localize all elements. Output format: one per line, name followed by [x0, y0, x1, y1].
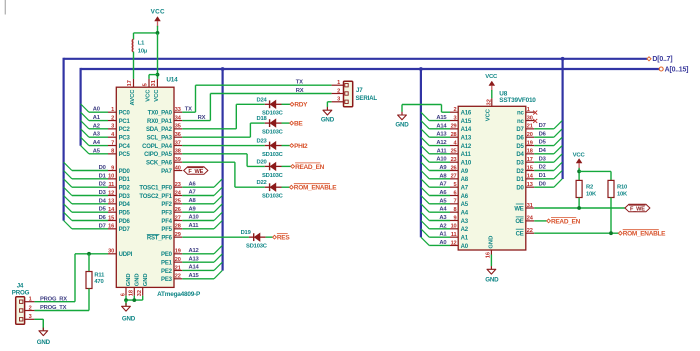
svg-text:A9: A9 — [189, 206, 197, 212]
net label A5 U8 — [439, 198, 447, 204]
svg-text:A1: A1 — [93, 115, 101, 121]
net label A1 — [93, 115, 101, 121]
svg-text:A11: A11 — [461, 152, 472, 158]
net label A13 — [189, 256, 200, 262]
pin 1 J7 — [332, 84, 344, 86]
net label A14 — [189, 265, 200, 271]
net label A14 U8 — [436, 123, 447, 129]
hier label F_WE at U8 — [625, 204, 650, 212]
wire VCC U8 — [491, 90, 493, 98]
pin 11 A1 U8 — [450, 232, 469, 242]
bus entry A14 U8 — [421, 121, 429, 129]
connector J7 body — [344, 81, 353, 107]
bus entry A7 — [214, 187, 222, 195]
wire net A12 U8 — [429, 145, 450, 147]
svg-text:VCC: VCC — [485, 108, 491, 121]
net label A15 — [189, 273, 200, 279]
svg-text:27: 27 — [175, 215, 181, 221]
svg-text:25: 25 — [175, 199, 181, 205]
label D19 — [241, 230, 252, 236]
svg-text:D6: D6 — [539, 131, 547, 137]
value SD103C D22 — [262, 194, 284, 200]
svg-text:D24: D24 — [256, 97, 267, 103]
wire net A3 — [89, 136, 108, 138]
svg-text:D7: D7 — [516, 127, 524, 133]
bus entry A10 U8 — [421, 154, 429, 162]
svg-text:A7: A7 — [439, 182, 446, 188]
svg-text:1: 1 — [29, 297, 32, 303]
svg-text:D22: D22 — [256, 180, 266, 186]
bus entry D6 right — [554, 129, 562, 137]
pin 12 PD3 — [108, 190, 131, 200]
svg-text:PF3: PF3 — [161, 210, 172, 216]
svg-text:A7: A7 — [461, 185, 469, 191]
pin 2 J7 — [332, 93, 344, 95]
pin 3 A15 U8 — [450, 115, 472, 125]
svg-text:31: 31 — [151, 80, 157, 86]
bus entry D3 — [64, 187, 72, 195]
pin 20 PE1 — [161, 257, 182, 267]
pin 27 PF4 — [161, 215, 182, 225]
pin 29 RST_PF6 — [147, 232, 183, 242]
svg-text:GND: GND — [485, 277, 499, 284]
svg-text:A14: A14 — [461, 127, 472, 133]
bus entry D4 right — [554, 146, 562, 154]
svg-text:5: 5 — [143, 83, 149, 86]
svg-text:nc: nc — [517, 119, 524, 125]
svg-text:VCC: VCC — [573, 152, 586, 158]
wire CE net — [534, 232, 618, 234]
wire net A10 — [182, 219, 214, 221]
svg-text:OE: OE — [515, 219, 523, 225]
bus entry D1 right — [554, 171, 562, 179]
svg-text:UDPI: UDPI — [119, 252, 133, 258]
wire net A11 — [182, 228, 214, 230]
pin 32 VCC U8 — [491, 98, 493, 106]
wire L1 to AVCC pin 17 — [133, 52, 135, 79]
page border fragment top-left — [4, 0, 6, 15]
net label D4 right — [539, 148, 547, 154]
wire RX — [182, 120, 210, 122]
svg-text:D1: D1 — [516, 177, 524, 183]
bus entry A4 U8 — [421, 204, 429, 212]
pin 8 PC5 — [108, 149, 131, 159]
hier label RDY — [290, 102, 308, 109]
wire pin29 to D19 — [182, 236, 249, 238]
wire net A9 — [182, 211, 214, 213]
pin 6 GND bottom — [125, 287, 127, 295]
svg-text:13: 13 — [527, 182, 533, 188]
ground at J4 — [42, 319, 44, 327]
label D22 — [256, 180, 266, 186]
wire net A15 U8 — [429, 120, 450, 122]
svg-text:ATmega4809-P: ATmega4809-P — [157, 291, 201, 298]
hier label PHI2 — [290, 143, 308, 150]
svg-text:RX: RX — [296, 88, 304, 94]
svg-text:BE: BE — [294, 121, 303, 128]
net label D0 right — [539, 181, 546, 187]
svg-text:PROG_TX: PROG_TX — [40, 305, 67, 311]
svg-text:PF2: PF2 — [161, 202, 172, 208]
wire D23 to label — [282, 145, 290, 147]
wire net D5 right — [534, 145, 554, 147]
svg-text:13: 13 — [108, 199, 114, 205]
svg-text:1: 1 — [337, 80, 340, 86]
svg-text:5: 5 — [453, 182, 456, 188]
wire net D1 right — [534, 178, 554, 180]
svg-text:9: 9 — [111, 165, 114, 171]
pin 25 A11 U8 — [450, 149, 472, 159]
wire net D6 — [72, 219, 108, 221]
wire A16 to GND — [442, 111, 451, 113]
svg-text:A15: A15 — [436, 115, 447, 121]
svg-text:COPL_PA4: COPL_PA4 — [142, 144, 172, 150]
svg-text:8: 8 — [453, 207, 456, 213]
svg-text:L1: L1 — [138, 41, 145, 47]
bus entry A0 U8 — [421, 237, 429, 245]
svg-text:AVCC: AVCC — [130, 89, 136, 106]
wire net A15 — [182, 278, 214, 280]
svg-text:8: 8 — [111, 149, 114, 155]
power symbol VCC at U8 — [489, 81, 495, 85]
wire net A6 — [182, 186, 214, 188]
net label D0 — [99, 165, 106, 171]
svg-text:D5: D5 — [516, 144, 524, 150]
net label A6 — [189, 181, 197, 187]
svg-text:TOSC1_PF0: TOSC1_PF0 — [139, 185, 172, 191]
pin 31 VCC — [156, 79, 158, 87]
pin 20 D6 U8 — [516, 132, 534, 142]
wire net A14 U8 — [429, 128, 450, 130]
pin 37 COPL_PA4 — [142, 140, 182, 150]
svg-text:R2: R2 — [586, 184, 593, 190]
svg-text:SD103C: SD103C — [246, 244, 268, 250]
wire net D0 right — [534, 186, 554, 188]
bus entry A12 U8 — [421, 137, 429, 145]
svg-text:A14: A14 — [436, 123, 447, 129]
svg-text:D5: D5 — [539, 140, 547, 146]
pin 9 PD0 — [108, 165, 131, 175]
svg-text:D20: D20 — [256, 159, 266, 165]
resistor R10 — [608, 180, 614, 197]
svg-text:A1: A1 — [461, 235, 469, 241]
svg-text:RX: RX — [198, 115, 206, 121]
bus D vertical left — [62, 58, 64, 221]
net label A12 U8 — [436, 140, 446, 146]
diode D22 — [265, 183, 282, 191]
svg-text:J7: J7 — [356, 87, 363, 94]
value SD103C D24 — [262, 111, 284, 117]
value SD103C D20 — [262, 173, 284, 179]
bus label A[0..15] — [659, 67, 663, 71]
svg-text:VCC: VCC — [145, 89, 151, 102]
wire pin37 to D23 — [182, 145, 264, 147]
bus entry A6 — [214, 179, 222, 187]
pin 15 PD6 — [108, 215, 131, 225]
net label A10 — [189, 215, 199, 221]
wire VCC horizontal to L1 — [134, 32, 158, 34]
svg-text:20: 20 — [175, 257, 181, 263]
pin 40 PA7 — [161, 165, 182, 175]
bus entry A0 — [81, 104, 89, 112]
svg-text:GND: GND — [122, 316, 136, 323]
svg-text:GND: GND — [395, 121, 409, 128]
svg-text:A8: A8 — [439, 173, 447, 179]
bus entry A4 — [81, 137, 89, 145]
svg-text:R10: R10 — [617, 184, 627, 190]
pin 32 GND bottom — [142, 287, 144, 295]
svg-text:A2: A2 — [93, 123, 100, 129]
pin 26 A9 U8 — [450, 165, 469, 175]
net label D6 right — [539, 131, 547, 137]
wire net A5 — [89, 153, 108, 155]
wire net A7 — [182, 195, 214, 197]
svg-text:A2: A2 — [439, 223, 446, 229]
hier label ROM_ENABLE at U8 — [618, 231, 622, 235]
wire net A3 U8 — [429, 219, 450, 221]
pin 18 D4 U8 — [516, 149, 534, 159]
resistor R2 — [576, 180, 582, 197]
net label A7 U8 — [439, 182, 446, 188]
svg-text:PE2: PE2 — [161, 269, 173, 275]
svg-text:PC4: PC4 — [119, 144, 131, 150]
net label A4 — [93, 140, 101, 146]
pin 10 PD1 — [108, 174, 131, 184]
svg-text:A4: A4 — [93, 140, 101, 146]
pin 15 D2 U8 — [516, 165, 534, 175]
bus D vertical right — [561, 59, 563, 179]
net label A5 — [93, 148, 101, 154]
bus entry D1 — [64, 171, 72, 179]
svg-text:PC5: PC5 — [119, 152, 131, 158]
svg-text:2: 2 — [29, 305, 32, 311]
wire net D7 — [72, 228, 108, 230]
hier label READ_EN — [291, 163, 325, 171]
svg-text:A12: A12 — [461, 144, 472, 150]
svg-text:U14: U14 — [166, 77, 178, 84]
pin 2 PC1 — [108, 115, 131, 125]
pin 4 PC3 — [108, 132, 131, 142]
svg-text:3: 3 — [29, 314, 32, 320]
value SD103C D23 — [262, 152, 284, 158]
svg-text:22: 22 — [527, 228, 533, 234]
pin 36 SCL_PA3 — [147, 132, 183, 142]
wire pin36 to D18 — [182, 136, 250, 138]
pin 2 A16 U8 — [450, 107, 472, 117]
wire net A10 U8 — [429, 161, 450, 163]
svg-text:SD103C: SD103C — [262, 152, 284, 158]
pin 3 J7 — [332, 101, 344, 103]
wire net A12 — [182, 253, 214, 255]
wire D19 to label — [266, 236, 273, 238]
svg-text:A3: A3 — [93, 132, 101, 138]
svg-text:15: 15 — [527, 165, 533, 171]
pin 13 PD4 — [108, 199, 131, 209]
bus entry A14 — [214, 262, 222, 270]
bus entry A13 — [214, 254, 222, 262]
bus entry D3 right — [554, 154, 562, 162]
wire net D2 right — [534, 170, 554, 172]
junction gnd 1 — [124, 298, 128, 302]
svg-text:D23: D23 — [256, 139, 267, 145]
bus entry D2 right — [554, 162, 562, 170]
pin 23 A10 U8 — [450, 157, 472, 167]
pin 35 SDA_PA2 — [146, 124, 182, 134]
pin 21 D7 U8 — [516, 124, 534, 134]
wire R11 bottom — [88, 289, 90, 311]
bus entry A5 U8 — [421, 196, 429, 204]
svg-text:F_WE: F_WE — [188, 169, 203, 175]
svg-text:19: 19 — [527, 140, 533, 146]
svg-text:A9: A9 — [461, 169, 469, 175]
svg-text:RES: RES — [277, 235, 290, 242]
svg-text:A5: A5 — [461, 202, 469, 208]
diode D24 — [265, 100, 282, 108]
net label D3 right — [539, 156, 547, 162]
svg-text:PD4: PD4 — [119, 202, 131, 208]
net label D6 — [99, 215, 107, 221]
wire D20 to label — [282, 165, 291, 167]
pin 28 A13 U8 — [450, 132, 472, 142]
net label A10 U8 — [436, 157, 446, 163]
svg-text:D0: D0 — [99, 165, 106, 171]
svg-text:SCK_PA6: SCK_PA6 — [146, 160, 173, 166]
bus entry A15 — [214, 270, 222, 278]
bus entry A15 U8 — [421, 112, 429, 120]
svg-text:D1: D1 — [99, 173, 107, 179]
svg-text:A13: A13 — [461, 135, 472, 141]
wire net A13 U8 — [429, 136, 450, 138]
svg-text:ROM_ENABLE: ROM_ENABLE — [623, 231, 666, 238]
pin 13 D0 U8 — [516, 182, 534, 192]
svg-text:D2: D2 — [539, 165, 546, 171]
pin 27 A8 U8 — [450, 174, 469, 184]
svg-text:SD103C: SD103C — [262, 130, 284, 136]
svg-text:A13: A13 — [436, 132, 447, 138]
pin 7 A5 U8 — [450, 199, 469, 209]
svg-text:GND: GND — [37, 339, 51, 346]
svg-text:7: 7 — [453, 199, 456, 205]
svg-text:22: 22 — [175, 274, 181, 280]
svg-text:SD103C: SD103C — [262, 173, 284, 179]
net label A6 U8 — [439, 190, 447, 196]
svg-text:A12: A12 — [436, 140, 446, 146]
bus label D[0..7] — [647, 57, 651, 61]
wire UDPI — [75, 253, 108, 255]
value SD103C D19 — [246, 244, 268, 250]
ground at J7 — [326, 102, 328, 107]
svg-text:2: 2 — [337, 88, 340, 94]
svg-text:A10: A10 — [189, 215, 199, 221]
svg-text:1: 1 — [111, 107, 114, 113]
svg-text:19: 19 — [175, 249, 181, 255]
svg-text:D18: D18 — [256, 116, 267, 122]
svg-text:D2: D2 — [99, 182, 106, 188]
svg-text:PF4: PF4 — [161, 219, 172, 225]
diode D20 — [265, 163, 282, 171]
svg-text:PROG: PROG — [12, 289, 30, 296]
svg-text:10: 10 — [451, 224, 457, 230]
power symbol VCC right — [576, 159, 582, 163]
wire VCC right down — [578, 168, 580, 181]
bus entry A11 U8 — [421, 146, 429, 154]
junction gnd 2 — [132, 298, 136, 302]
wire pin38 to D20 — [182, 153, 247, 155]
svg-text:A3: A3 — [461, 219, 469, 225]
wire net D0 — [72, 170, 108, 172]
bus entry D5 — [64, 204, 72, 212]
hier label BE — [290, 121, 304, 128]
wire net A1 U8 — [429, 236, 450, 238]
wire D18 to label — [282, 122, 290, 124]
svg-text:GND: GND — [134, 273, 140, 286]
svg-text:READ_EN: READ_EN — [551, 218, 581, 225]
wire net A8 U8 — [429, 178, 450, 180]
svg-text:A10: A10 — [436, 157, 446, 163]
net label A2 U8 — [439, 223, 446, 229]
svg-text:F_WE: F_WE — [630, 206, 645, 212]
svg-text:39: 39 — [175, 157, 181, 163]
svg-text:A12: A12 — [189, 248, 199, 254]
svg-text:3: 3 — [337, 97, 340, 103]
svg-text:PC3: PC3 — [119, 135, 131, 141]
svg-text:29: 29 — [175, 232, 181, 238]
pin 5 VCC — [148, 79, 150, 87]
svg-text:18: 18 — [527, 149, 533, 155]
hier label F_WE at pin 40 — [184, 167, 208, 175]
pin 12 A0 U8 — [450, 240, 469, 250]
svg-text:PF5: PF5 — [161, 227, 172, 233]
bus entry D6 — [64, 212, 72, 220]
svg-text:11: 11 — [451, 232, 457, 238]
wire D22 to label — [282, 186, 290, 188]
ground at U14 — [125, 300, 127, 303]
pin 3 PC2 — [108, 124, 131, 134]
pin 38 CIPO_PA5 — [144, 149, 182, 159]
svg-text:A6: A6 — [461, 194, 469, 200]
svg-text:WE: WE — [514, 206, 523, 212]
svg-text:PE1: PE1 — [161, 260, 173, 266]
svg-text:26: 26 — [175, 207, 181, 213]
pin 3 J4 — [25, 318, 35, 320]
net label D7 right — [539, 123, 546, 129]
inductor L1 — [132, 39, 133, 42]
bus entry D2 — [64, 179, 72, 187]
pin 19 D5 U8 — [516, 140, 534, 150]
net label A2 — [93, 123, 100, 129]
svg-text:SST39VF010: SST39VF010 — [499, 97, 536, 104]
svg-text:A10: A10 — [461, 160, 472, 166]
svg-text:470: 470 — [94, 279, 103, 285]
pin 19 PE0 — [161, 249, 182, 258]
svg-text:D19: D19 — [241, 230, 252, 236]
wire L1 top — [133, 33, 135, 40]
svg-text:PD3: PD3 — [119, 194, 131, 200]
svg-text:D0: D0 — [539, 181, 546, 187]
net label D5 right — [539, 140, 547, 146]
svg-text:PD2: PD2 — [119, 185, 131, 191]
wire net A9 U8 — [429, 170, 450, 172]
svg-text:D2: D2 — [516, 169, 524, 175]
svg-text:A2: A2 — [461, 227, 469, 233]
bus entry A12 — [214, 245, 222, 253]
svg-text:D4: D4 — [539, 148, 547, 154]
svg-text:GND: GND — [143, 273, 149, 286]
wire net A0 — [89, 111, 108, 113]
svg-text:A16: A16 — [461, 111, 472, 117]
pin 17 D3 U8 — [516, 157, 534, 167]
junction VCC pins — [156, 73, 160, 77]
